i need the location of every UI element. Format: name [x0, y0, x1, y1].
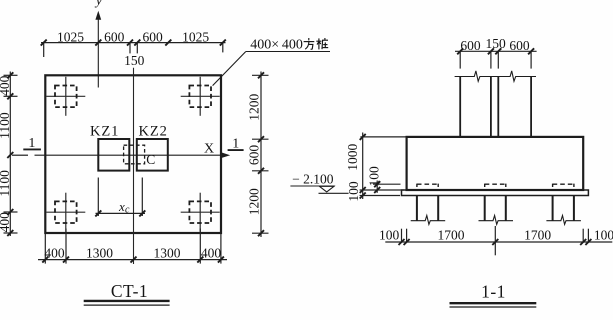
svg-text:400: 400 [44, 245, 65, 260]
pile P4 (bottom-right, 400x400) [181, 193, 220, 232]
left dimension labels (rotated) [0, 75, 12, 232]
right dimension ticks [258, 72, 264, 236]
top dimension ticks [41, 40, 226, 46]
section outer dimension ticks [360, 134, 366, 199]
section pile S2 [479, 184, 514, 225]
section top dimension ticks [457, 48, 534, 54]
leader to pile label [213, 52, 330, 86]
section column KZ2 edges [498, 77, 531, 137]
svg-text:X: X [204, 141, 214, 156]
svg-text:1200: 1200 [247, 188, 262, 215]
title 1-1 [450, 281, 537, 307]
section mark 1 (right) [228, 137, 244, 152]
section top dimension 600/150/600 [455, 51, 537, 68]
svg-text:1100: 1100 [0, 112, 12, 139]
pile P1 (top-left, 400x400) [46, 77, 85, 116]
svg-text:− 2.100: − 2.100 [292, 171, 334, 186]
section inner dimension 100 (pile embedment) [373, 181, 401, 193]
svg-text:100: 100 [346, 181, 361, 202]
svg-text:1700: 1700 [438, 228, 465, 243]
plan center axis line [133, 68, 135, 264]
svg-text:600: 600 [509, 38, 530, 53]
bottom dimension ticks [42, 257, 224, 263]
section pile S3 [546, 184, 581, 225]
section bottom dimension labels [379, 228, 613, 243]
section cap body [407, 137, 584, 190]
combined column C (dashed) [124, 145, 156, 167]
svg-text:100: 100 [367, 166, 382, 187]
bottom dimension labels [44, 245, 221, 260]
svg-text:c: c [125, 205, 130, 216]
cushion (bedding layer) [402, 190, 589, 196]
svg-text:600: 600 [104, 30, 125, 45]
right dimension line 1200/600/1200 [252, 72, 269, 238]
section outer dimension labels (rotated) [345, 143, 361, 201]
level mark -2.100 [290, 171, 348, 193]
svg-text:1-1: 1-1 [481, 281, 506, 301]
section pile S1 [411, 184, 446, 225]
svg-text:600: 600 [247, 145, 262, 166]
CJK glyph FANG (hand drawn) [304, 38, 315, 49]
dimension xc label [118, 199, 130, 216]
svg-text:1000: 1000 [345, 143, 360, 170]
svg-text:150: 150 [124, 53, 145, 68]
section inner dimension label (rotated) [367, 166, 382, 187]
column KZ1 [90, 124, 129, 171]
svg-text:1025: 1025 [57, 30, 84, 45]
svg-text:400: 400 [0, 212, 12, 233]
section top dimension labels [460, 36, 530, 53]
svg-text:1100: 1100 [0, 170, 12, 197]
svg-text:x: x [118, 199, 125, 214]
bottom dimension line 400/1300/1300/400 [38, 229, 227, 264]
svg-text:600: 600 [142, 30, 163, 45]
dimension xc ticks [95, 210, 145, 216]
axis X [12, 141, 230, 158]
dimension xc [96, 178, 146, 217]
svg-text:KZ2: KZ2 [139, 124, 168, 140]
svg-text:1025: 1025 [182, 30, 209, 45]
column KZ2 [137, 124, 168, 171]
plan: pile cap outline CT-1 [45, 75, 221, 233]
section bottom dimension ticks [399, 239, 592, 245]
section inner dimension ticks [374, 181, 380, 193]
svg-text:100: 100 [594, 228, 613, 243]
section bottom dimension 100/1700/1700/100 [385, 226, 612, 255]
svg-text:1700: 1700 [524, 228, 551, 243]
left dimension ticks [7, 72, 13, 236]
svg-text:600: 600 [460, 38, 481, 53]
pile P3 (bottom-left, 400x400) [46, 193, 85, 232]
svg-text:400: 400 [0, 75, 12, 96]
top dimension labels [57, 30, 209, 68]
svg-text:150: 150 [485, 36, 506, 51]
svg-text:KZ1: KZ1 [90, 124, 119, 140]
svg-text:1200: 1200 [247, 93, 262, 120]
column break line [455, 71, 536, 81]
pile P2 (top-right, 400x400) [181, 77, 220, 116]
section left dimension 1000/100 (outer) [360, 133, 407, 200]
svg-text:1300: 1300 [86, 245, 113, 260]
svg-text:y: y [94, 0, 103, 8]
CJK glyph ZHUANG (hand drawn) [316, 38, 328, 49]
top dimension line 1025/600/600/1025 [41, 43, 226, 57]
section mark 1 (left) [23, 136, 41, 151]
svg-text:C: C [146, 152, 155, 167]
svg-text:400× 400: 400× 400 [250, 38, 303, 53]
axis Y [94, 0, 103, 87]
section column KZ1 edges [460, 77, 491, 137]
right dimension labels (rotated) [247, 93, 262, 215]
svg-text:400: 400 [201, 245, 222, 260]
title CT-1 [84, 281, 170, 305]
label 400x400 square pile [250, 38, 303, 53]
svg-text:100: 100 [379, 228, 400, 243]
svg-text:CT-1: CT-1 [111, 281, 148, 301]
svg-text:1300: 1300 [154, 245, 181, 260]
left dimension line 400/1100/1100/400 [4, 72, 18, 237]
